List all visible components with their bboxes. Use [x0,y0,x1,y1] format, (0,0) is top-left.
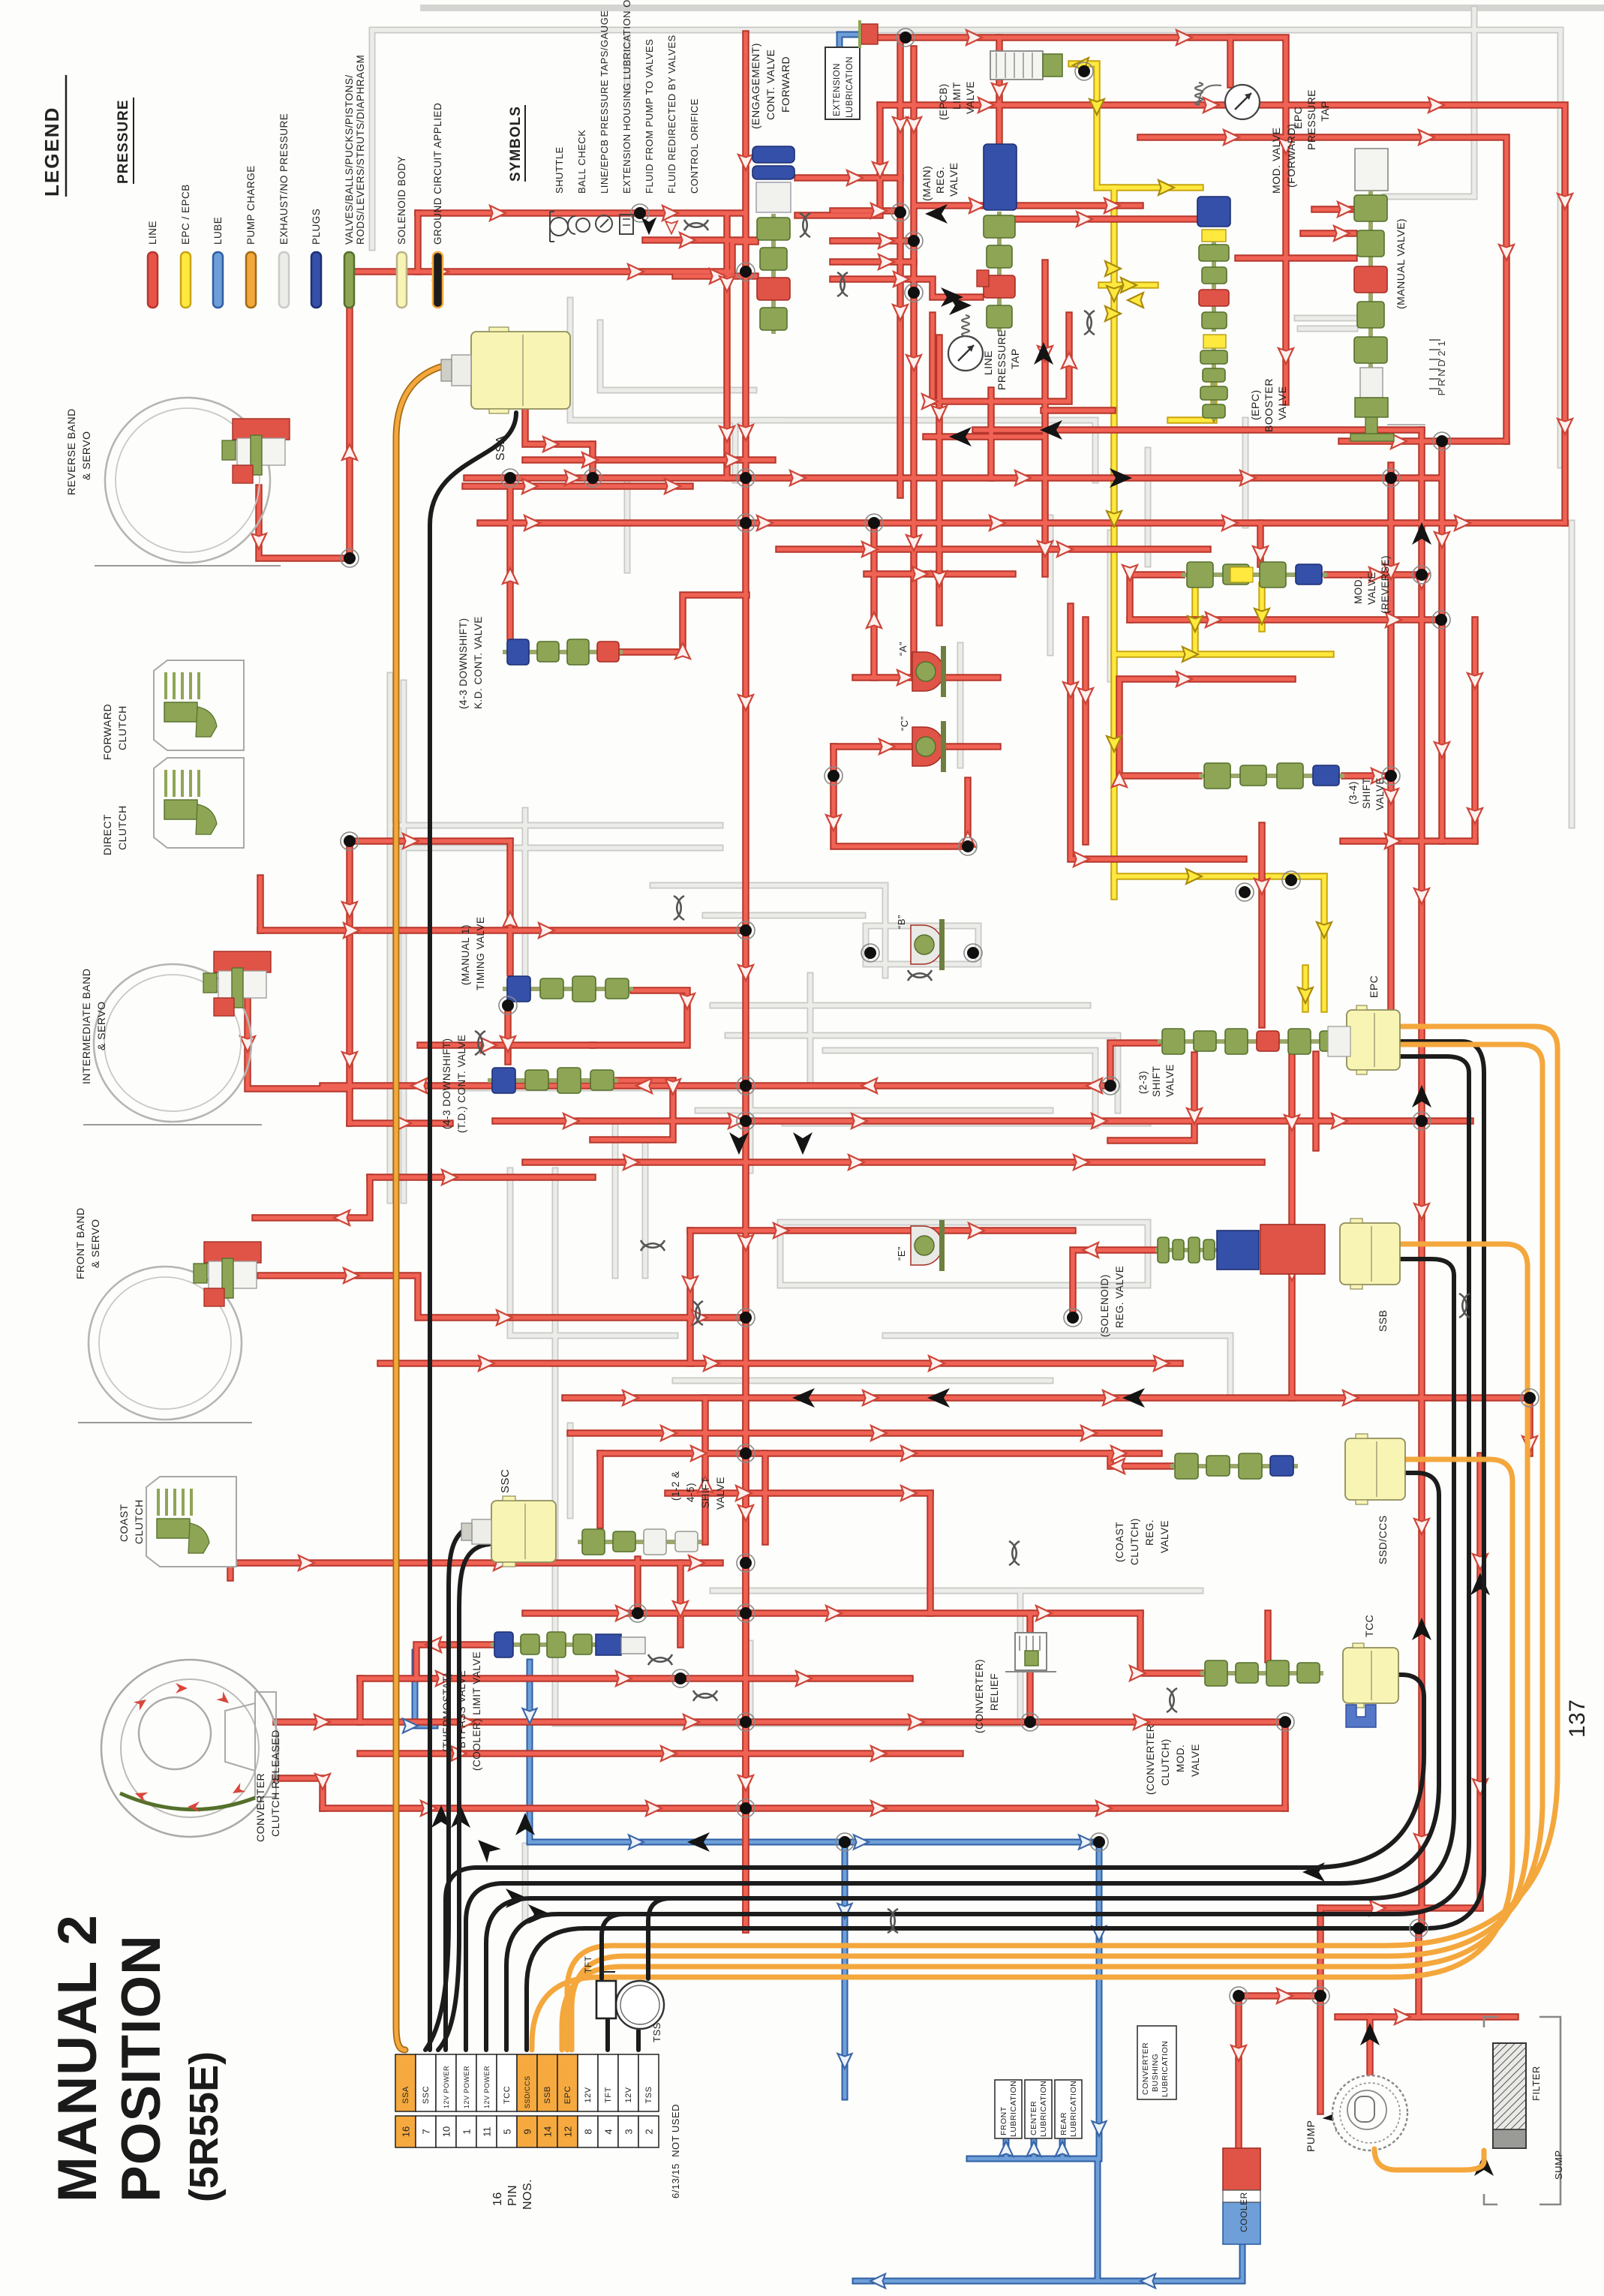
svg-text:11: 11 [482,2126,493,2137]
svg-text:BUSHING: BUSHING [1151,2054,1160,2092]
svg-text:LINE: LINE [147,221,158,245]
svg-text:LEGEND: LEGEND [41,107,63,197]
svg-text:PLUGS: PLUGS [311,209,322,245]
svg-text:VALVE: VALVE [1276,386,1288,420]
svg-text:MOD. VALVE: MOD. VALVE [1270,127,1282,194]
svg-text:SUMP: SUMP [1553,2150,1564,2180]
svg-text:CLUTCH): CLUTCH) [1160,1739,1171,1786]
svg-text:TCC: TCC [503,2086,512,2104]
svg-text:6/13/15 NOT USED: 6/13/15 NOT USED [670,2104,681,2198]
svg-text:1: 1 [461,2129,473,2134]
svg-text:FRONT: FRONT [999,2106,1008,2135]
svg-text:CONTROL ORIFICE: CONTROL ORIFICE [689,98,700,194]
svg-text:RODS/LEVERS/STRUTS/DIAPHRAGM: RODS/LEVERS/STRUTS/DIAPHRAGM [355,55,366,245]
svg-text:FORWARD: FORWARD [779,56,791,113]
svg-text:POSITION: POSITION [111,1934,172,2202]
svg-text:9: 9 [522,2129,533,2134]
svg-text:12V: 12V [624,2087,633,2102]
svg-text:SHIFT: SHIFT [1151,1066,1162,1098]
svg-text:“A”: “A” [897,642,909,656]
svg-text:COOLER: COOLER [1239,2192,1249,2232]
svg-text:12V POWER: 12V POWER [483,2066,491,2108]
svg-text:12: 12 [563,2126,574,2137]
svg-text:MANUAL 2: MANUAL 2 [47,1914,108,2202]
svg-text:TCC: TCC [1363,1615,1375,1637]
svg-text:LUBRICATION: LUBRICATION [846,56,855,118]
svg-text:14: 14 [542,2126,554,2137]
svg-text:FLUID REDIRECTED BY VALVES: FLUID REDIRECTED BY VALVES [666,35,677,194]
svg-text:(SOLENOID): (SOLENOID) [1099,1274,1110,1337]
svg-text:(T.D.) CONT. VALVE: (T.D.) CONT. VALVE [456,1034,467,1133]
svg-text:SOLENOID BODY: SOLENOID BODY [396,156,407,245]
svg-text:8: 8 [583,2129,594,2134]
svg-text:5: 5 [502,2129,513,2134]
svg-text:COAST: COAST [118,1504,130,1542]
svg-text:VALVE: VALVE [1164,1064,1176,1097]
svg-text:REG. VALVE: REG. VALVE [1114,1266,1125,1328]
svg-text:SHIFT: SHIFT [1361,778,1372,810]
svg-text:EXTENSION HOUSING LUBRICATION: EXTENSION HOUSING LUBRICATION ORIFICE [621,0,632,194]
svg-text:(1-2 &: (1-2 & [670,1471,681,1501]
svg-text:(2-3): (2-3) [1137,1071,1149,1094]
svg-text:7: 7 [421,2129,432,2134]
svg-text:MOD.: MOD. [1353,576,1364,604]
svg-text:SSC: SSC [499,1469,512,1493]
svg-text:(EPCB): (EPCB) [938,83,949,120]
svg-text:SYMBOLS: SYMBOLS [508,106,524,182]
svg-text:INTERMEDIATE BAND: INTERMEDIATE BAND [80,969,92,1084]
svg-text:12V: 12V [584,2087,593,2102]
svg-text:(COAST: (COAST [1114,1522,1125,1562]
svg-text:FILTER: FILTER [1530,2066,1542,2101]
svg-text:BYPASS VALVE: BYPASS VALVE [456,1670,467,1748]
svg-text:REVERSE BAND: REVERSE BAND [65,408,77,495]
svg-text:& SERVO: & SERVO [95,1002,107,1051]
svg-text:TSS: TSS [651,2022,662,2042]
svg-text:LUBRICATION: LUBRICATION [1009,2081,1018,2137]
svg-text:(4-3 DOWNSHIFT): (4-3 DOWNSHIFT) [441,1038,452,1130]
svg-text:K.D. CONT. VALVE: K.D. CONT. VALVE [473,616,484,709]
svg-text:TIMING VALVE: TIMING VALVE [475,916,486,990]
svg-text:LUBRICATION: LUBRICATION [1069,2081,1078,2137]
svg-text:CLUTCH: CLUTCH [116,705,128,750]
svg-text:3: 3 [623,2129,635,2134]
svg-text:SSC: SSC [422,2086,431,2104]
svg-text:(MAIN): (MAIN) [921,166,933,201]
svg-text:LIMIT: LIMIT [951,82,963,110]
svg-text:2: 2 [644,2129,655,2134]
svg-text:MOD.: MOD. [1175,1745,1186,1772]
svg-text:(FORWARD): (FORWARD) [1285,124,1297,188]
svg-text:“E”: “E” [896,1246,907,1261]
svg-text:PUMP: PUMP [1305,2120,1317,2152]
svg-text:REAR: REAR [1059,2112,1068,2135]
svg-text:NOS.: NOS. [521,2179,534,2210]
svg-text:PRESSURE: PRESSURE [1305,89,1317,150]
svg-text:(REVERSE): (REVERSE) [1380,555,1391,614]
svg-text:TAP: TAP [1009,348,1021,369]
svg-text:(ENGAGEMENT): (ENGAGEMENT) [749,43,761,129]
svg-text:(CONVERTER): (CONVERTER) [974,1659,985,1733]
svg-text:CONVERTER: CONVERTER [254,1773,266,1842]
svg-text:(MANUAL 1): (MANUAL 1) [460,924,471,985]
svg-text:VALVES/BALLS/PUCKS/PISTONS/: VALVES/BALLS/PUCKS/PISTONS/ [344,74,355,245]
svg-text:12V POWER: 12V POWER [463,2066,470,2108]
svg-text:FLUID FROM PUMP TO VALVES: FLUID FROM PUMP TO VALVES [644,39,655,194]
svg-text:12V POWER: 12V POWER [443,2066,450,2108]
svg-text:VALVE: VALVE [1366,572,1377,605]
svg-text:PRESSURE: PRESSURE [996,329,1008,390]
svg-text:BOOSTER: BOOSTER [1263,378,1275,432]
svg-text:(MANUAL VALVE): (MANUAL VALVE) [1395,218,1407,309]
svg-text:SSB: SSB [543,2086,552,2104]
svg-text:(3-4): (3-4) [1347,781,1359,804]
svg-text:REG.: REG. [1144,1519,1155,1546]
svg-text:(COOLER) LIMIT VALVE: (COOLER) LIMIT VALVE [471,1651,482,1771]
svg-text:CENTER: CENTER [1029,2101,1038,2135]
svg-text:10: 10 [441,2126,452,2137]
svg-text:PUMP CHARGE: PUMP CHARGE [245,165,257,245]
svg-text:LUBRICATION: LUBRICATION [1161,2041,1170,2097]
svg-text:CLUTCH: CLUTCH [133,1499,145,1544]
svg-text:R: R [1436,379,1447,386]
svg-text:LUBRICATION: LUBRICATION [1039,2081,1048,2137]
svg-text:EPC: EPC [563,2086,572,2104]
svg-text:CLUTCH): CLUTCH) [1129,1518,1140,1565]
svg-text:SSD/CCS: SSD/CCS [1377,1515,1389,1564]
svg-text:PRESSURE: PRESSURE [116,99,131,184]
svg-text:CONT. VALVE: CONT. VALVE [764,50,776,120]
svg-text:4: 4 [603,2129,614,2134]
svg-text:CONVERTER: CONVERTER [1141,2042,1150,2095]
svg-text:RELIEF: RELIEF [989,1673,1000,1711]
svg-text:SHUTTLE: SHUTTLE [554,146,565,194]
svg-text:P: P [1436,389,1447,396]
svg-text:2: 2 [1436,350,1447,356]
svg-text:BALL CHECK: BALL CHECK [576,130,587,194]
svg-text:DIRECT: DIRECT [101,814,113,855]
svg-text:137: 137 [1565,1699,1590,1738]
svg-text:SSD/CCS: SSD/CCS [524,2075,531,2108]
svg-text:TAP: TAP [1319,101,1331,122]
svg-text:REG.: REG. [934,167,946,194]
svg-text:CLUTCH RELEASED: CLUTCH RELEASED [269,1730,281,1837]
svg-text:CLUTCH: CLUTCH [116,805,128,850]
svg-text:EXHAUST/NO PRESSURE: EXHAUST/NO PRESSURE [278,113,290,245]
svg-text:& SERVO: & SERVO [89,1219,101,1269]
svg-text:LUBE: LUBE [212,217,224,245]
svg-text:GROUND CIRCUIT APPLIED: GROUND CIRCUIT APPLIED [432,103,443,245]
svg-text:TFT: TFT [604,2087,613,2103]
svg-text:(THERMOSTAT): (THERMOSTAT) [441,1672,452,1752]
svg-text:(4-3 DOWNSHIFT): (4-3 DOWNSHIFT) [458,618,469,710]
svg-text:“B”: “B” [896,915,907,929]
svg-text:VALVE: VALVE [1159,1520,1170,1553]
svg-text:EPC: EPC [1368,975,1380,998]
svg-text:TFT: TFT [583,1955,593,1973]
svg-text:LINE: LINE [982,350,994,375]
svg-text:VALVE: VALVE [965,81,976,114]
svg-text:1: 1 [1436,341,1447,346]
svg-text:SSA: SSA [401,2086,410,2104]
svg-text:(EPC): (EPC) [1249,389,1261,420]
svg-text:LINE/EPCB PRESSURE TAPS/GAUGE: LINE/EPCB PRESSURE TAPS/GAUGE [599,11,610,194]
svg-text:(5R55E): (5R55E) [182,2051,227,2202]
svg-text:EXTENSION: EXTENSION [833,63,842,116]
svg-text:N: N [1436,369,1447,376]
svg-text:VALVE: VALVE [948,162,960,197]
svg-text:SSB: SSB [1377,1309,1389,1332]
svg-text:16: 16 [491,2192,504,2206]
svg-text:EPC / EPCB: EPC / EPCB [180,184,191,245]
svg-text:PIN: PIN [506,2185,519,2206]
svg-text:FORWARD: FORWARD [101,704,113,760]
svg-text:4-5): 4-5) [685,1483,696,1502]
svg-text:D: D [1436,359,1447,366]
svg-text:(CONVERTER: (CONVERTER [1145,1724,1156,1795]
svg-text:SHIFT: SHIFT [700,1477,711,1509]
svg-text:“C”: “C” [899,716,910,731]
svg-text:& SERVO: & SERVO [80,431,92,481]
svg-text:FRONT BAND: FRONT BAND [74,1207,86,1279]
svg-text:16: 16 [401,2126,412,2137]
svg-text:VALVE: VALVE [1190,1744,1201,1777]
svg-text:SSA: SSA [494,435,507,461]
svg-text:TSS: TSS [644,2087,653,2104]
svg-text:VALVE: VALVE [715,1477,726,1510]
